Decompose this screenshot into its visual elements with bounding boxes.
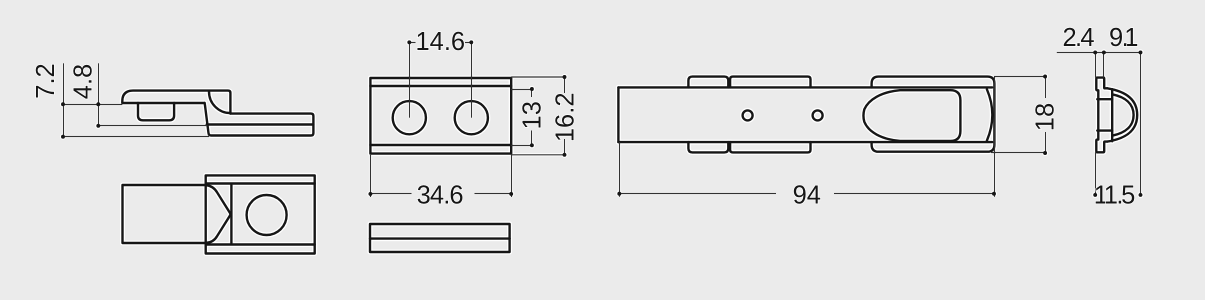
- slide bar: bottom edge: [618, 141, 992, 143]
- dim dot 18 top: [1043, 75, 1047, 79]
- plate front view: right hole: [455, 101, 488, 134]
- svg-text:14.6: 14.6: [415, 28, 465, 56]
- dim dot 13 bottom: [530, 143, 534, 147]
- svg-text:7.2: 7.2: [32, 63, 60, 98]
- dim dot 16.2 top: [563, 75, 567, 79]
- dim dot 94 right: [992, 192, 996, 196]
- dim 2.4 extension left upper: [1095, 52, 1097, 77]
- dim 14.6 extension right: [471, 42, 473, 117]
- end view: dome outer arc: [1107, 88, 1137, 141]
- keeper side view: hook fillet arc: [209, 92, 231, 114]
- dim dot 4.8 top: [96, 102, 100, 106]
- dim dot 14.6 left: [407, 40, 411, 44]
- svg-text:34.6: 34.6: [417, 182, 464, 210]
- dim dot 2.4 left: [1093, 50, 1097, 54]
- end view: dome chord: [1111, 89, 1113, 141]
- end view: bottom fold line: [1097, 129, 1112, 131]
- dim 13 connector bottom: [511, 145, 532, 147]
- dim 9.1/11.5 extension right tall: [1140, 52, 1142, 195]
- dim 18 connector top: [994, 76, 1046, 78]
- keeper top view: bottom flange line: [206, 243, 315, 245]
- dim 7.2 extension vertical: [63, 63, 65, 136]
- slide bar: left end edge: [617, 87, 619, 142]
- svg-text:94: 94: [793, 181, 821, 209]
- dim ref line bottom surface: [63, 136, 209, 138]
- end view: bracket profile: [1096, 78, 1107, 153]
- dim ref line mid surface: [98, 125, 208, 127]
- dim 18 line: [1045, 77, 1047, 153]
- dim dot 94 left: [617, 192, 621, 196]
- slide bar: rivet hole left: [743, 110, 753, 120]
- dim 18 connector bottom: [991, 152, 1046, 154]
- dim dot 34.6 left: [368, 192, 372, 196]
- dim dot 4.8 bottom: [96, 124, 100, 128]
- dim dot 18 bottom: [1043, 151, 1047, 155]
- plate front view: bottom hem line: [370, 144, 511, 146]
- keeper top view: hole: [247, 195, 287, 235]
- dim 94 extension right: [994, 77, 996, 197]
- dim 16.2 connector top: [511, 76, 564, 78]
- end view: top fold line: [1097, 98, 1112, 100]
- dim 2.4/9.1 top line: [1057, 52, 1141, 54]
- plate front view: outer rectangle: [370, 78, 511, 154]
- keeper side view: top plate outline: [122, 91, 230, 114]
- slide bar: tongue bullet: [863, 90, 960, 141]
- dim 34.6 line: [371, 193, 512, 195]
- slide bar: bottom tab 2: [730, 142, 810, 152]
- svg-text:16.2: 16.2: [551, 92, 579, 142]
- slide bar: top tab 1: [688, 77, 728, 88]
- slide bar: sleeve outline: [872, 77, 995, 152]
- dim dot 2.4/9.1 mid: [1102, 50, 1106, 54]
- plate side view: mid line: [370, 237, 510, 239]
- plate front view: top hem line: [370, 85, 511, 87]
- slide bar: top edge: [618, 86, 992, 88]
- dim 34.6 extension left: [370, 155, 372, 197]
- dim dot 9.1 right: [1139, 50, 1143, 54]
- dim dot 13 top: [530, 87, 534, 91]
- plate side view: outer rectangle: [370, 224, 510, 252]
- keeper top view: V fold: [206, 185, 231, 243]
- svg-text:18: 18: [1032, 103, 1060, 131]
- dim 16.2 line: [564, 77, 566, 155]
- dim dot 7.2 bottom: [61, 135, 65, 139]
- keeper side view: base plate outline: [205, 103, 314, 136]
- keeper top view: tongue plate rectangle: [123, 185, 206, 243]
- end view: dome inner arc: [1112, 94, 1133, 135]
- keeper top view: body outer rectangle: [206, 175, 315, 253]
- dim 94 line: [620, 193, 995, 195]
- svg-text:91.: 91.: [1109, 24, 1138, 52]
- dim 94 extension left: [619, 142, 621, 197]
- dim dot 14.6 right: [469, 40, 473, 44]
- dim dot 34.6 right: [509, 192, 513, 196]
- svg-text:4.8: 4.8: [70, 64, 98, 99]
- dim 34.6 extension right: [511, 155, 513, 197]
- dim 4.8 extension vertical: [98, 63, 100, 126]
- svg-text:2.4: 2.4: [1063, 24, 1095, 52]
- keeper top view: fold edge vertical: [230, 185, 232, 243]
- dim 2.4/9.1 extension mid: [1103, 52, 1105, 77]
- dim dot 11.5 right: [1139, 193, 1143, 197]
- dim dot 11.5 left: [1093, 193, 1097, 197]
- keeper side view: base plate mid line: [207, 123, 314, 125]
- dim dot 7.2 top: [61, 102, 65, 106]
- slide bar: top tab 2: [730, 77, 810, 88]
- dim 13 line: [531, 89, 533, 146]
- dim 16.2 connector bottom: [511, 154, 564, 156]
- plate front view: left hole: [393, 101, 426, 134]
- svg-text:13: 13: [519, 101, 547, 129]
- keeper side view: pocket recess: [138, 103, 174, 120]
- slide bar: dome end crescent: [987, 89, 992, 140]
- keeper top view: top flange line: [206, 182, 315, 184]
- dim 13 connector top: [511, 89, 532, 91]
- slide bar: rivet hole right: [813, 110, 823, 120]
- slide bar: bottom tab 1: [688, 142, 728, 152]
- dim ref line top surface: [63, 104, 123, 106]
- dim 14.6 line stubs: [410, 42, 472, 44]
- svg-text:115.: 115.: [1094, 182, 1136, 210]
- dim 14.6 extension left: [409, 42, 411, 117]
- dim dot 16.2 bottom: [563, 153, 567, 157]
- dim 11.5 extension left lower: [1095, 152, 1097, 195]
